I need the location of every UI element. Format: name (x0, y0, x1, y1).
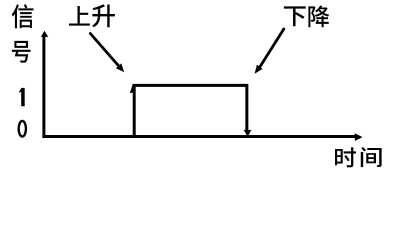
text 升 (of annotation 上升 = rise) (92, 4, 115, 27)
x-axis (time) shaft (42, 135, 355, 138)
rise annotation arrow shaft (from 上升) (90, 34, 118, 66)
pulse high-level top line (133, 84, 249, 87)
falling edge down arrowhead (244, 130, 252, 137)
text 下 (of annotation 下降 = fall) (284, 6, 306, 26)
text 号 (of vertical y-axis label 信号 = signal) (12, 41, 31, 63)
text 降 (of annotation 下降 = fall) (308, 6, 329, 28)
y-axis (signal) shaft (42, 37, 45, 138)
x-axis arrowhead (355, 133, 363, 141)
rising edge up arrowhead (130, 84, 136, 93)
fall annotation arrowhead (255, 65, 263, 74)
pulse falling edge shaft (245, 87, 248, 131)
text 间 (of x-axis label 时间 = time) (361, 147, 382, 167)
text 时 (of x-axis label 时间 = time) (335, 147, 356, 167)
text 信 (of vertical y-axis label 信号 = signal) (12, 4, 34, 28)
y-axis level label "0" (19, 121, 26, 137)
pulse rising edge shaft (133, 87, 136, 138)
y-axis level label "1" (19, 88, 25, 106)
fall annotation arrow shaft (from 下降) (260, 29, 284, 67)
rise annotation arrowhead (116, 63, 124, 72)
y-axis arrowhead (41, 31, 48, 37)
text 上 (of annotation 上升 = rise) (69, 6, 90, 26)
